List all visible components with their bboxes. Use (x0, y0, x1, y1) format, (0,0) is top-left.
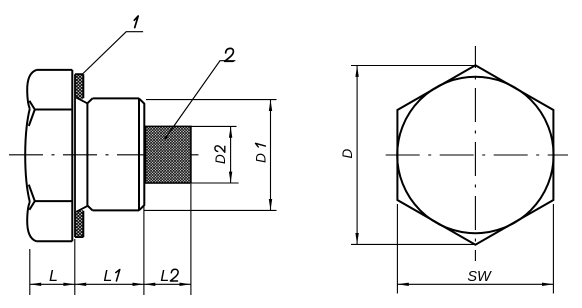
dimension D1 (144, 100, 277, 211)
label D2 (213, 146, 228, 164)
hexagon front view (397, 65, 553, 244)
svg-text:D: D (253, 153, 268, 163)
label D1 (253, 143, 268, 163)
label D (340, 148, 355, 158)
svg-text:L: L (103, 268, 112, 285)
hex head side view (25, 70, 72, 241)
svg-text:D: D (213, 154, 228, 164)
shank cylinder L1 (87, 98, 144, 210)
dimension SW (397, 204, 553, 294)
dimension D (351, 66, 475, 245)
head circle (397, 77, 553, 233)
label L1 (103, 268, 119, 285)
label 1 (134, 16, 138, 28)
label L (49, 268, 58, 285)
label 2 (225, 48, 234, 61)
svg-text:L: L (160, 268, 169, 285)
threaded section item 2 (145, 126, 191, 183)
dimension L L1 L2 extension lines (30, 184, 191, 295)
dimension arrows L row (30, 283, 191, 286)
svg-text:D: D (340, 148, 355, 158)
leader line 1 (82, 32, 144, 75)
leader line 2 (164, 61, 235, 139)
label SW (467, 269, 492, 285)
svg-text:L: L (49, 268, 58, 285)
sealing washer item 1 (75, 74, 87, 237)
right view centerlines (386, 46, 568, 261)
label L2 (160, 268, 178, 285)
dimension D2 (192, 126, 239, 183)
centerline left view (9, 154, 199, 156)
svg-text:SW: SW (467, 269, 492, 285)
